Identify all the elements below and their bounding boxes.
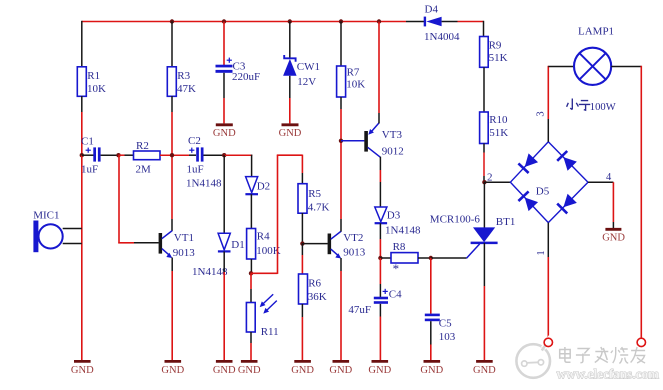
wire: C4 bottom black — [379, 304, 381, 317]
wire: mic top stub — [63, 228, 82, 230]
wire: VT3 emitter stub black — [378, 113, 380, 123]
zener diode CW1 12V — [283, 55, 320, 88]
svg-text:1uF: 1uF — [81, 164, 98, 176]
svg-text:4: 4 — [606, 172, 612, 183]
wire: VT2 collector stub — [340, 219, 342, 232]
ground: node4 GND — [602, 229, 625, 243]
wire: C5 bottom black — [430, 321, 432, 344]
svg-text:100W: 100W — [590, 102, 616, 113]
wire: bridge bottom black — [547, 223, 549, 257]
svg-text:R9: R9 — [489, 39, 502, 51]
node: junction R4/R11/feedback — [249, 271, 253, 275]
wire: D3 to R8 node (red) — [379, 239, 381, 258]
svg-text:R10: R10 — [489, 114, 508, 126]
resistor R9 51K — [480, 37, 508, 68]
wire: mic bottom stub — [63, 243, 82, 245]
svg-text:9012: 9012 — [382, 145, 404, 157]
node: junction R2/R3/C2/VT1-collector — [170, 153, 174, 157]
transistor VT2 9013 — [328, 231, 366, 258]
wire: D1 to GND (red) — [223, 272, 225, 360]
diode D3 1N4148 — [375, 207, 421, 237]
wire: bottom vertex to terminal (red) — [547, 257, 549, 338]
wire: R4 bottom lead — [250, 259, 252, 273]
wire: C3 top lead (red) — [223, 22, 225, 66]
node: junction C2/D1 — [222, 153, 226, 157]
ground: BT1 GND — [473, 361, 496, 376]
wire: R6 top black — [301, 244, 303, 255]
svg-text:GND: GND — [71, 365, 94, 376]
wire: rail corner to R9 — [483, 21, 485, 38]
wire: VT1 collector stub — [171, 219, 173, 231]
lamp LAMP1 — [574, 25, 614, 85]
wire: BT1 gate (blue) — [467, 244, 480, 258]
svg-text:GND: GND — [238, 365, 261, 376]
svg-text:1: 1 — [536, 250, 547, 255]
wire: VT3 base (blue) — [341, 140, 364, 142]
transistor VT3 9012 — [364, 123, 404, 157]
svg-text:GND: GND — [161, 365, 184, 376]
svg-text:*: * — [393, 261, 400, 276]
svg-text:GND: GND — [279, 128, 302, 139]
wire: C1 to base-node stub — [101, 154, 119, 156]
wire: top rail red segment to R9 corner — [458, 21, 484, 23]
resistor R10 51K — [480, 112, 509, 144]
bridge rectifier D5 outline — [510, 142, 588, 223]
svg-text:D2: D2 — [257, 181, 270, 193]
watermark: www.elecfans.com — [557, 367, 660, 382]
svg-text:1N4148: 1N4148 — [192, 266, 228, 278]
wire: VT1 base drop (red) — [118, 155, 134, 243]
bridge diode D5b (4 to 3) — [557, 151, 577, 171]
svg-text:GND: GND — [213, 365, 236, 376]
wire: R5 top stub black — [301, 173, 303, 184]
label: node 1 — [536, 250, 547, 255]
bridge diode D5a (3 to 2) — [518, 153, 538, 173]
resistor R8 — [391, 241, 418, 276]
capacitor C1 1uF — [81, 136, 101, 176]
svg-text:VT3: VT3 — [382, 129, 403, 141]
wire: R7 bottom black — [340, 97, 342, 109]
wire: feedback corner to R5 (red) — [251, 155, 303, 274]
ground: mic branch GND — [71, 361, 94, 376]
wire: node2 to bridge left — [484, 181, 510, 183]
svg-text:GND: GND — [420, 365, 443, 376]
svg-text:10K: 10K — [346, 79, 365, 91]
svg-text:47uF: 47uF — [348, 304, 371, 316]
svg-text:GND: GND — [602, 233, 625, 244]
wire: D3 bottom black — [379, 223, 381, 239]
wire: VT1 emitter to GND (red) — [171, 271, 173, 360]
svg-text:R3: R3 — [177, 70, 190, 82]
resistor R7 10K — [337, 66, 366, 97]
wire: C2 to D1 node — [204, 154, 225, 156]
wire: node4 drop black — [612, 222, 614, 228]
wire: D3 top stub — [379, 182, 381, 208]
wire: node to C1 stub — [82, 154, 94, 156]
svg-text:D4: D4 — [425, 4, 439, 16]
node: rail junction C3 — [222, 19, 226, 23]
wire: node4 drop red — [612, 182, 614, 222]
wire: R1 top lead — [81, 21, 83, 67]
ground: C5 GND — [420, 361, 443, 376]
ground: R11 GND — [238, 361, 261, 376]
svg-text:220uF: 220uF — [232, 71, 260, 83]
wire: VT3 emitter feed (red) — [378, 22, 380, 114]
wire: C5 to GND (red) — [430, 345, 432, 361]
microphone MIC1 — [33, 210, 63, 253]
wire: R7 top lead — [340, 22, 342, 67]
thyristor BT1 MCR100-6 — [430, 213, 516, 243]
wire: R8 left stub — [380, 257, 391, 259]
wire: R6 bottom black — [301, 304, 303, 317]
wire: VT2 base stub — [302, 243, 327, 245]
wire: node 2 stub — [483, 176, 485, 182]
wire: R2-C2 black stub — [189, 154, 196, 156]
node: junction D3/R8/C4 — [378, 256, 382, 260]
resistor R1 10K — [77, 67, 106, 97]
node: junction R5/R6/VT2-base — [300, 241, 304, 245]
wire: D1 top lead — [223, 155, 225, 233]
wire: lamp right lead — [611, 66, 641, 68]
wire: D2 top lead black — [251, 155, 253, 177]
ground: C3 GND — [213, 125, 236, 139]
wire: R3 bottom lead black — [171, 96, 173, 112]
wire: CW1 top lead — [289, 22, 291, 60]
svg-text:R6: R6 — [308, 277, 321, 289]
svg-text:C2: C2 — [188, 135, 201, 147]
wire: R11 top lead (red) — [250, 273, 252, 289]
transistor VT1 9013 — [159, 231, 196, 260]
svg-text:VT2: VT2 — [343, 232, 363, 244]
wire: top rail black stub left of D4 — [406, 21, 424, 23]
wire: R3 to collector node (red) — [171, 112, 173, 219]
node: rail junction CW1 — [288, 19, 292, 23]
watermark: text 电子发烧友 — [560, 347, 645, 364]
wire: R1 bottom lead black — [81, 96, 83, 112]
svg-text:MIC1: MIC1 — [33, 210, 59, 222]
watermark: elecfans logo circle — [516, 337, 551, 378]
svg-text:4.7K: 4.7K — [308, 202, 330, 214]
svg-text:C5: C5 — [439, 317, 452, 329]
wire: lamp left drop (red) — [547, 66, 549, 119]
wire: R10 to node 2 (red) — [483, 153, 485, 177]
resistor R4 100K — [247, 229, 281, 260]
svg-text:R5: R5 — [308, 188, 321, 200]
wire: C3 bottom black — [223, 73, 225, 98]
svg-text:36K: 36K — [308, 291, 327, 303]
diode D2 1N4148 — [245, 177, 270, 195]
wire: C4 to GND (red) — [379, 317, 381, 361]
svg-text:MCR100-6: MCR100-6 — [430, 213, 481, 225]
wire: VT3 collector black — [379, 157, 381, 170]
label: node 4 — [606, 172, 612, 183]
svg-text:1N4004: 1N4004 — [424, 31, 460, 43]
wire: R6 top red — [301, 255, 303, 275]
svg-text:3: 3 — [536, 111, 547, 116]
wire: R11 to GND (red) — [250, 343, 252, 360]
wire: CW1 bottom black — [289, 76, 291, 98]
label: node 3 — [536, 111, 547, 116]
ground: C4 GND — [368, 361, 391, 376]
node: rail junction R3 — [170, 19, 174, 23]
wire: bridge right to node4 — [588, 181, 613, 183]
svg-text:C4: C4 — [389, 288, 402, 300]
resistor R3 47K — [167, 67, 196, 97]
svg-text:1N4148: 1N4148 — [385, 225, 421, 237]
ground: VT1 emitter GND — [161, 361, 184, 376]
photoresistor R11 — [246, 294, 278, 338]
svg-text:9013: 9013 — [343, 246, 366, 258]
svg-text:GND: GND — [291, 365, 314, 376]
node: rail junction R7 — [339, 19, 343, 23]
svg-text:R1: R1 — [87, 70, 100, 82]
wire: R10 bottom stub — [483, 144, 485, 153]
wire: R1 to signal node (red) — [81, 112, 83, 155]
svg-text:CW1: CW1 — [297, 61, 320, 73]
wire: R9 to R10 — [483, 67, 485, 112]
wire: mic branch vertical (red) — [81, 155, 83, 360]
wire: VT1 base stub black — [134, 242, 159, 244]
wire: bridge top to lamp black — [547, 119, 549, 142]
capacitor C5 103 — [425, 314, 456, 344]
svg-text:1uF: 1uF — [187, 164, 204, 176]
wire: gate run black — [431, 257, 467, 259]
node: junction C1/R2/VT1-base — [116, 153, 120, 157]
bridge diode D5d (4 to 1) — [557, 194, 577, 214]
wire: C4 top red — [379, 258, 381, 284]
label: lamp rating 小于100W — [567, 99, 616, 113]
svg-text:R11: R11 — [261, 326, 279, 338]
svg-text:R8: R8 — [393, 241, 406, 253]
capacitor C3 220uF — [216, 58, 261, 84]
wire: base-node to R2 stub — [125, 154, 134, 156]
wire: VT1 emitter black — [171, 258, 173, 272]
svg-text:51K: 51K — [489, 127, 508, 139]
ground: VT2 emitter GND — [329, 361, 352, 376]
wire: CW1 to GND (red) — [289, 98, 291, 123]
svg-text:47K: 47K — [177, 83, 196, 95]
svg-text:D3: D3 — [387, 209, 401, 221]
svg-text:GND: GND — [473, 365, 496, 376]
wire: R11 bottom black — [250, 332, 252, 343]
wire: C3 to GND (red) — [223, 98, 225, 123]
svg-text:9013: 9013 — [173, 247, 196, 259]
diode D1 1N4148 — [192, 233, 245, 278]
svg-text:12V: 12V — [297, 76, 316, 88]
svg-text:51K: 51K — [489, 52, 508, 64]
terminal: left output — [544, 338, 552, 346]
wire: BT1 cathode to GND (red) — [483, 286, 485, 360]
wire: signal node to D2 corner (red) — [224, 154, 252, 156]
svg-text:GND: GND — [213, 128, 236, 139]
wire: right column (red) — [640, 66, 642, 338]
wire: top rail black stub right of D4 — [442, 21, 458, 23]
svg-text:GND: GND — [368, 365, 391, 376]
wire: R7 to VT2 collector (red) — [340, 109, 342, 219]
wire: C5 top (red) — [430, 258, 432, 314]
node: junction R7/VT3-base — [339, 139, 343, 143]
wire: BT1 anode — [483, 182, 485, 228]
ground: D1 GND — [213, 361, 236, 376]
svg-text:103: 103 — [439, 331, 456, 343]
svg-text:R4: R4 — [257, 230, 270, 242]
svg-text:10K: 10K — [87, 83, 106, 95]
wire: D1 bottom black — [223, 251, 225, 272]
capacitor C4 47uF — [348, 288, 402, 315]
diode D4 1N4004 — [424, 4, 460, 43]
svg-text:D5: D5 — [536, 185, 550, 197]
node: junction 2 (R10/BT1/bridge) — [482, 172, 492, 185]
svg-text:2M: 2M — [136, 163, 152, 175]
node: rail junction VT3 — [377, 19, 381, 23]
capacitor C2 1uF — [187, 135, 204, 176]
svg-text:D1: D1 — [231, 239, 244, 251]
svg-text:LAMP1: LAMP1 — [578, 25, 614, 37]
wire: VT2 emitter to GND (red) — [340, 271, 342, 360]
terminal: right output — [637, 338, 645, 346]
wire: R5 to VT2 base node — [301, 213, 303, 244]
wire: +12V top rail (red segment) — [82, 21, 406, 23]
svg-text:R7: R7 — [347, 66, 360, 78]
label: 1N4148 (D2) — [186, 178, 222, 190]
wire: R8 right stub — [418, 257, 431, 259]
bridge diode D5c (1 to 2) — [518, 191, 538, 211]
svg-text:BT1: BT1 — [496, 216, 516, 228]
wire: VT3 collector red bit — [379, 170, 381, 182]
svg-text:VT1: VT1 — [174, 232, 194, 244]
ground: R6 GND — [291, 361, 314, 376]
svg-text:C1: C1 — [81, 136, 94, 148]
wire: C4 top stub black — [379, 284, 381, 297]
node: junction R1/C1/mic — [80, 153, 84, 157]
wire: lamp left lead — [548, 66, 574, 68]
wire: base-node red stub — [119, 154, 125, 156]
svg-text:R2: R2 — [136, 140, 149, 152]
resistor R2 2M — [134, 140, 161, 175]
svg-text:1N4148: 1N4148 — [186, 178, 222, 190]
svg-text:GND: GND — [329, 365, 352, 376]
node: junction R8/C5/gate — [429, 256, 433, 260]
svg-text:www.elecfans.com: www.elecfans.com — [557, 367, 660, 382]
wire: R6 to GND (red) — [301, 317, 303, 360]
wire: R11 top stub black — [250, 289, 252, 303]
wire: R2 to C2 (red) — [160, 154, 189, 156]
wire: D2 to R4 — [250, 194, 252, 229]
wire: R3 top lead — [171, 22, 173, 68]
wire: BT1 cathode black — [483, 243, 485, 286]
resistor R5 4.7K — [298, 184, 330, 214]
resistor R6 36K — [299, 274, 327, 304]
wire: VT2 emitter black — [340, 258, 342, 271]
ground: CW1 GND — [279, 125, 302, 139]
